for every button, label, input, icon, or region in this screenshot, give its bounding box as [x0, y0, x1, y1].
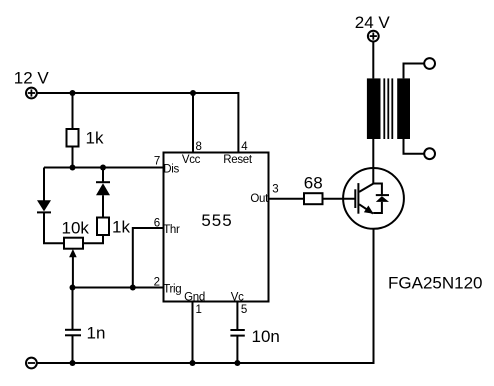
wire pin8 drop: [192, 93, 194, 153]
node junction top rail left: [70, 90, 76, 96]
svg-text:2: 2: [154, 277, 160, 289]
svg-text:1: 1: [196, 304, 202, 316]
wire D2 to R2: [102, 195, 104, 217]
node junction gnd pin1: [190, 360, 196, 366]
svg-text:1k: 1k: [112, 218, 130, 237]
svg-text:5: 5: [241, 304, 247, 316]
svg-text:10n: 10n: [252, 327, 280, 346]
node junction gnd C1: [70, 360, 76, 366]
node junction trig wiper: [70, 285, 76, 291]
node junction Dis row left column: [70, 165, 76, 171]
potentiometer R3 10k: [64, 238, 83, 258]
svg-text:Dis: Dis: [163, 164, 179, 176]
wire wiper to trig row: [72, 255, 74, 288]
svg-text:FGA25N120: FGA25N120: [388, 273, 483, 292]
wire secondary top lead: [404, 64, 425, 79]
wire pin1 gnd: [192, 302, 194, 364]
svg-text:6: 6: [154, 217, 160, 229]
diode D3 freewheel: [376, 195, 389, 202]
svg-text:12 V: 12 V: [14, 69, 50, 88]
transistor Q1 IGBT body circle: [343, 168, 404, 229]
wire R1 to node row: [72, 147, 74, 168]
wire 12V to R1: [72, 93, 74, 129]
svg-text:Thr: Thr: [163, 224, 180, 236]
svg-text:4: 4: [241, 141, 248, 153]
wire trig node to C1: [72, 288, 74, 330]
terminal 24V supply: [368, 31, 379, 42]
op-amp U1 555 body: [164, 153, 269, 302]
node junction trig thr: [130, 285, 136, 291]
node junction top rail pin8: [190, 90, 196, 96]
terminal 12V supply: [26, 88, 37, 99]
transistor Q1 emitter arrow: [364, 206, 374, 214]
wire C1 to ground rail: [72, 335, 74, 363]
wire R2 to pot right: [83, 235, 103, 243]
svg-text:Out: Out: [250, 193, 269, 205]
resistor R2 1k: [97, 218, 109, 236]
wire 24V to transformer primary: [372, 42, 374, 79]
resistor R4 68: [304, 193, 323, 204]
transistor Q1 collector diagonal: [359, 184, 373, 192]
wire pin5 to C2: [236, 302, 238, 331]
svg-text:8: 8: [196, 141, 202, 153]
wire top rail 12V: [37, 93, 239, 153]
wire Out pin3: [269, 198, 305, 200]
transistor Q1 gate bar: [354, 189, 356, 208]
terminal ground: [26, 358, 37, 369]
diode D1: [37, 200, 51, 212]
transformer T1 secondary winding: [397, 78, 410, 139]
svg-text:7: 7: [154, 156, 160, 168]
wire secondary bottom lead: [404, 139, 425, 154]
wire collector corner to diode branch: [373, 184, 382, 196]
wire right branch upper: [102, 168, 104, 183]
wire C2 to ground rail: [236, 336, 238, 363]
capacitor C1 1n: [65, 330, 81, 336]
wire R4 to gate: [323, 198, 356, 200]
svg-text:Gnd: Gnd: [184, 292, 205, 304]
svg-text:Trig: Trig: [163, 284, 181, 296]
transistor Q1 emitter diagonal: [359, 204, 373, 213]
wire Thr link: [133, 228, 164, 288]
wire diode branch bottom: [373, 202, 382, 213]
capacitor C2 10n: [230, 330, 244, 336]
wire ground rail: [37, 229, 374, 363]
wire Dis node row: [44, 167, 164, 169]
svg-text:1k: 1k: [86, 129, 104, 148]
svg-text:Reset: Reset: [223, 154, 253, 166]
svg-text:Vcc: Vcc: [182, 154, 201, 166]
node junction Dis row diode branch: [100, 165, 106, 171]
wire Trig row: [73, 287, 164, 289]
svg-text:10k: 10k: [62, 219, 90, 238]
transformer T1 primary winding: [367, 78, 381, 139]
svg-text:3: 3: [272, 183, 278, 195]
svg-text:555: 555: [201, 211, 232, 230]
svg-text:24 V: 24 V: [355, 13, 391, 32]
transformer T1 core: [384, 78, 392, 139]
transistor Q1 body bar: [357, 183, 359, 214]
wire left branch lower: [44, 212, 64, 243]
wire left branch upper: [43, 168, 45, 201]
terminal secondary bottom: [424, 148, 435, 159]
resistor R1 1k: [67, 129, 79, 147]
svg-text:1n: 1n: [87, 324, 106, 343]
svg-text:68: 68: [304, 173, 323, 192]
node junction gnd C2: [234, 360, 240, 366]
wire transformer to collector: [372, 139, 374, 184]
terminal secondary top: [424, 58, 435, 69]
diode D2: [96, 182, 110, 195]
